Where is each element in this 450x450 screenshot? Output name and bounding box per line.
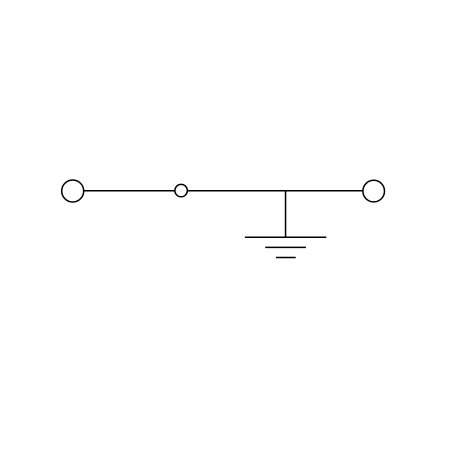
terminal left clamp point bbox=[62, 180, 84, 202]
wire vertical stub to ground bbox=[285, 191, 287, 237]
wire horizontal conductor bbox=[73, 190, 373, 192]
terminal right clamp point bbox=[363, 180, 385, 202]
node test point bbox=[175, 184, 187, 196]
ground bbox=[245, 237, 326, 257]
